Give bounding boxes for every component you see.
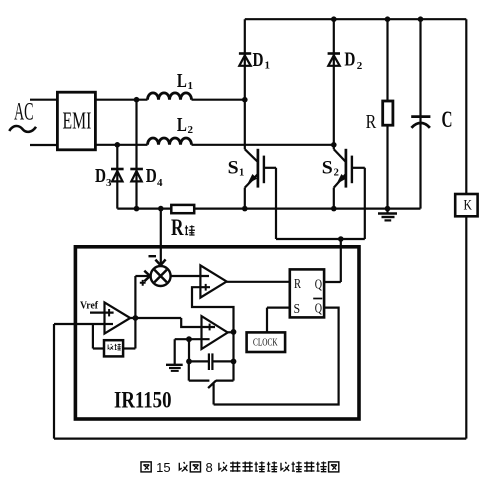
svg-text:L: L <box>177 70 187 92</box>
ground power <box>386 209 388 214</box>
wire switch control <box>213 384 215 405</box>
wire R branch top <box>386 19 388 101</box>
node dot integrator minus <box>186 336 192 342</box>
wire EMI to L1 <box>95 99 147 101</box>
wire gate bus <box>276 238 365 240</box>
diode D1 <box>239 55 250 65</box>
resistor R <box>383 101 393 125</box>
arrow into multiplier top <box>155 259 165 265</box>
svg-text:C: C <box>442 107 453 132</box>
node junction dot L1-S1 <box>242 97 248 103</box>
svg-text:IR1150: IR1150 <box>114 388 172 413</box>
minus sign sense input <box>149 255 157 257</box>
svg-text:S: S <box>294 302 301 317</box>
switch reset <box>189 361 210 380</box>
wire top DC bus <box>245 18 466 20</box>
diode D3 <box>112 171 122 181</box>
svg-text:4: 4 <box>157 177 163 189</box>
wire error amp output <box>130 317 181 319</box>
multiplier U-mult <box>151 266 171 286</box>
feedback box <box>104 340 123 356</box>
svg-text:D: D <box>253 49 264 71</box>
flip-flop RS <box>290 269 324 317</box>
wire comparator plus feedback path <box>192 287 234 380</box>
node dot integrator output <box>231 329 237 335</box>
svg-text:R: R <box>171 215 184 240</box>
svg-text:2: 2 <box>357 60 363 72</box>
node dot sense tap <box>158 206 164 212</box>
wire S2 gate lead <box>364 168 366 239</box>
wire multiplier left input <box>135 275 149 277</box>
wire feedback input line <box>54 323 113 325</box>
node dot C top <box>418 16 424 22</box>
node dot ground tap <box>385 206 391 212</box>
svg-text:Q: Q <box>315 302 322 317</box>
wire R branch bottom <box>386 125 388 208</box>
node dot R top <box>385 16 391 22</box>
wire multiplier feed vertical <box>134 276 136 349</box>
wire minus to cap rail <box>188 339 190 361</box>
IC block IR1150 <box>75 247 359 419</box>
node dot cap rail right <box>231 359 237 365</box>
wire S input from clock <box>267 308 290 333</box>
clock box <box>247 332 286 352</box>
inductor L1 <box>148 93 192 100</box>
inductor L2 <box>148 138 192 145</box>
transistor S2 <box>334 149 346 162</box>
svg-text:D: D <box>344 49 355 71</box>
wire D4 branch <box>135 100 137 209</box>
node dot error amp output <box>133 315 139 321</box>
svg-text:L: L <box>177 114 187 136</box>
wire Vref input stub <box>90 312 114 314</box>
capacitor C <box>411 115 430 118</box>
caption figure label <box>141 460 339 475</box>
wire Q output <box>324 281 341 283</box>
wire AC bottom stub <box>30 144 57 146</box>
ground signal <box>166 364 183 366</box>
node junction dot D4 top <box>134 97 140 103</box>
wire bottom rail right <box>194 208 420 210</box>
svg-text:S: S <box>322 158 333 179</box>
svg-text:15: 15 <box>156 460 170 475</box>
svg-text:S: S <box>228 158 239 179</box>
wire feedback box left lead <box>93 324 104 349</box>
op-amp integrator <box>202 316 228 349</box>
transistor S1 <box>245 149 258 162</box>
svg-text:CLOCK: CLOCK <box>253 337 278 348</box>
arrow into multiplier left <box>144 271 150 282</box>
svg-text:K: K <box>464 197 473 213</box>
svg-text:Q: Q <box>315 278 322 293</box>
diode D4 <box>131 171 141 181</box>
resistor Rsense box <box>171 205 194 213</box>
wire AC top stub <box>30 99 57 101</box>
wire multiplier output to comparator minus <box>171 275 209 277</box>
wire integrator minus input <box>189 338 210 340</box>
wire to signal ground <box>175 339 189 364</box>
wire EMI to L2 <box>95 144 147 146</box>
wire C branch <box>419 19 421 208</box>
wire right branch bottom <box>465 216 467 438</box>
wire D1 branch <box>244 19 246 149</box>
wire D2 branch <box>333 19 335 149</box>
wire bottom rail left <box>117 208 171 210</box>
svg-text:R: R <box>366 111 377 133</box>
wire L1 to D1/S1 node <box>192 99 245 101</box>
svg-text:AC: AC <box>14 98 34 125</box>
node dot S1 emitter <box>242 206 248 212</box>
wire feedback box right lead <box>123 347 135 349</box>
node junction dot D3 top <box>115 142 121 148</box>
op-amp error amplifier <box>105 302 131 333</box>
op-amp comparator <box>200 265 226 297</box>
wire sense line to multiplier <box>160 209 162 265</box>
node dot D2 top <box>331 16 337 22</box>
relay K box <box>455 194 477 216</box>
node junction dot L2-S2 <box>331 142 337 148</box>
EMI filter box <box>57 92 95 150</box>
node dot S2 emitter <box>331 206 337 212</box>
wire L2 to D2/S2 node <box>192 144 334 146</box>
svg-text:1: 1 <box>265 60 271 72</box>
wire error out to integrator <box>181 318 215 327</box>
wire integrator output stub <box>228 331 234 333</box>
wire comparator output to R <box>227 281 290 283</box>
minus input stub error amp <box>105 323 114 325</box>
svg-text:D: D <box>146 165 157 187</box>
wire S1 gate lead <box>275 168 277 239</box>
capacitor integrator <box>189 360 208 362</box>
svg-text:2: 2 <box>188 124 194 136</box>
diode D2 <box>328 55 339 65</box>
node dot D4 bottom <box>134 206 140 212</box>
wire D3 branch <box>116 145 118 209</box>
wire Qbar loop <box>214 308 339 405</box>
wire outer loop left <box>53 324 55 439</box>
svg-text:Vref: Vref <box>80 300 98 311</box>
wire outer loop bottom <box>54 438 466 440</box>
svg-text:D: D <box>95 165 106 187</box>
svg-text:3: 3 <box>106 177 112 189</box>
AC tilde symbol <box>9 126 36 132</box>
node dot cap rail left <box>186 359 192 365</box>
svg-text:2: 2 <box>334 168 339 179</box>
svg-text:EMI: EMI <box>63 109 92 135</box>
svg-text:1: 1 <box>239 168 244 179</box>
plus sign multiplier input <box>140 280 146 286</box>
svg-text:R: R <box>294 277 301 292</box>
wire right branch top <box>465 19 467 194</box>
wire Q to gate bus <box>340 239 342 282</box>
svg-text:8: 8 <box>206 460 213 475</box>
node dot gate bus <box>338 236 344 242</box>
svg-text:1: 1 <box>188 80 194 92</box>
